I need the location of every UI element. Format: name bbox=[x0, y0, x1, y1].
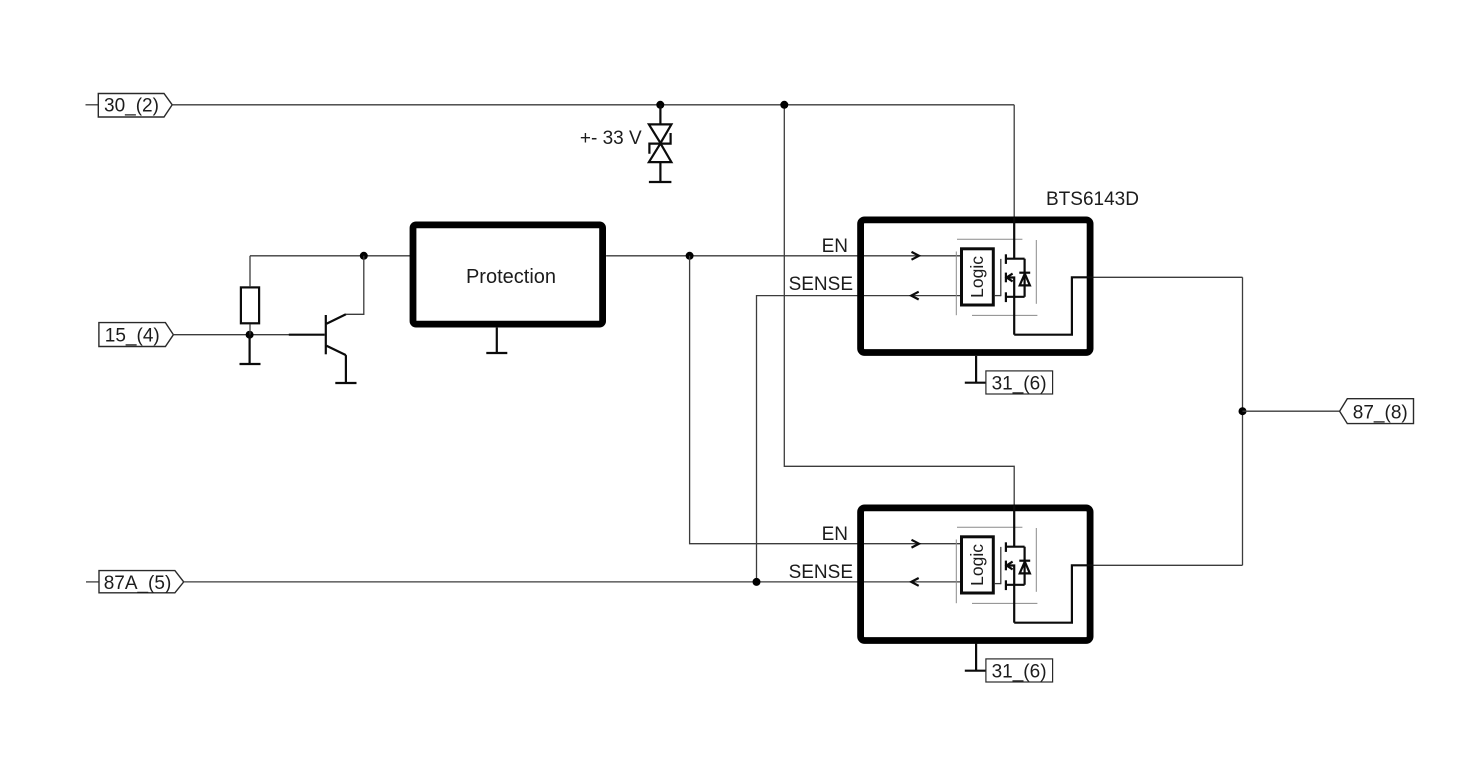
svg-text:+- 33 V: +- 33 V bbox=[580, 128, 642, 149]
junction dot collector node bbox=[360, 252, 368, 260]
flag 87A_(5) bbox=[86, 571, 184, 594]
TVS diode D1 +- 33 V bbox=[649, 105, 672, 181]
mosfet T1 top chip bbox=[995, 218, 1030, 335]
ground below TVS bbox=[649, 181, 672, 183]
ground below Protection bbox=[486, 328, 507, 353]
svg-text:87A_(5): 87A_(5) bbox=[104, 573, 172, 594]
Protection box U2 bbox=[413, 225, 603, 324]
wire source zigzag top chip bbox=[1014, 277, 1093, 334]
label box 31_(6) top bbox=[986, 371, 1053, 395]
chip U1 top BTS6143D bbox=[861, 220, 1091, 353]
arrow SENSE top bbox=[911, 292, 919, 300]
svg-text:Logic: Logic bbox=[967, 256, 987, 298]
mosfet T2 bottom chip bbox=[995, 506, 1030, 623]
wire 30 rail drop into top switch drain bbox=[1013, 105, 1015, 219]
arrow EN top bbox=[912, 252, 920, 260]
junction dot rail/branch bbox=[780, 101, 788, 109]
flag 15_(4) bbox=[99, 323, 173, 347]
junction dot 87A/SENSE bbox=[753, 578, 761, 586]
wire 87A net bbox=[184, 581, 961, 583]
flag 30_(2) bbox=[86, 94, 173, 118]
chip U3 bottom BTS6143D bbox=[861, 508, 1091, 641]
junction dot rail/TVS bbox=[656, 101, 664, 109]
wire net 30 rail bbox=[172, 104, 1014, 106]
svg-text:EN: EN bbox=[822, 236, 848, 257]
inner frame lines top chip bbox=[956, 239, 1037, 315]
ground below 15 junction bbox=[240, 335, 261, 364]
junction dot 87 bbox=[1239, 407, 1247, 415]
logic box top chip bbox=[962, 249, 994, 305]
logic box bottom chip bbox=[962, 537, 994, 593]
svg-text:Logic: Logic bbox=[967, 544, 987, 586]
wire to 87 flag bbox=[1243, 410, 1340, 412]
wire resistor top to protection input bbox=[250, 255, 413, 257]
svg-text:30_(2): 30_(2) bbox=[104, 96, 159, 117]
inner frame lines bottom chip bbox=[956, 527, 1037, 603]
wire 87 bus vertical bbox=[1242, 277, 1244, 565]
svg-text:EN: EN bbox=[822, 524, 848, 545]
wire protection output / EN top bbox=[606, 255, 960, 257]
transistor Q1 bbox=[289, 314, 346, 382]
svg-text:31_(6): 31_(6) bbox=[992, 373, 1047, 394]
svg-text:BTS6143D: BTS6143D bbox=[1046, 189, 1139, 210]
arrow SENSE bottom bbox=[911, 578, 919, 586]
svg-text:87_(8): 87_(8) bbox=[1353, 402, 1408, 423]
ground below top chip bbox=[965, 356, 988, 383]
wire collector riser bbox=[346, 256, 364, 314]
label box 31_(6) bottom bbox=[986, 659, 1053, 683]
wire EN drop to bottom chip bbox=[690, 256, 961, 544]
svg-text:SENSE: SENSE bbox=[789, 562, 853, 583]
ground below Q1 emitter bbox=[335, 382, 356, 384]
wire 15 net bbox=[173, 334, 290, 336]
junction dot 15/resistor bbox=[246, 331, 254, 339]
resistor R1 bbox=[241, 256, 259, 335]
wire 30 rail branch down left of chips bbox=[784, 105, 1014, 506]
ground below bottom chip bbox=[965, 643, 988, 670]
arrow EN bottom bbox=[912, 540, 920, 548]
wire source zigzag bottom chip bbox=[1014, 565, 1093, 622]
wire bottom chip source out to 87 bus bbox=[1094, 564, 1243, 566]
wire top chip source out to 87 bus bbox=[1094, 276, 1243, 278]
svg-text:15_(4): 15_(4) bbox=[105, 326, 160, 347]
flag 87_(8) bbox=[1340, 399, 1414, 424]
svg-text:31_(6): 31_(6) bbox=[992, 661, 1047, 682]
svg-text:Protection: Protection bbox=[466, 266, 556, 288]
junction dot EN branch bbox=[686, 252, 694, 260]
svg-text:SENSE: SENSE bbox=[789, 274, 853, 295]
wire top SENSE to 87A net bbox=[757, 296, 961, 582]
